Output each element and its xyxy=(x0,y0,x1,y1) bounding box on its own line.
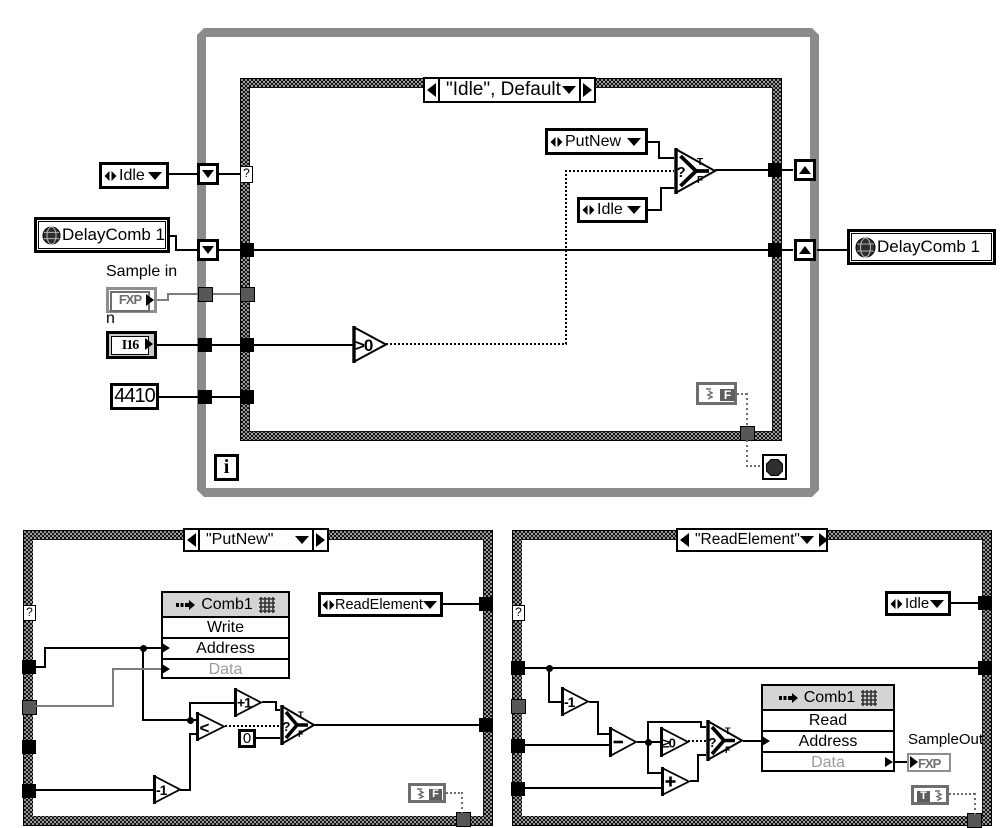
svg-text:+1: +1 xyxy=(237,695,252,711)
svg-text:-1: -1 xyxy=(564,694,576,710)
svg-text:F: F xyxy=(725,745,731,755)
svg-text:T: T xyxy=(725,726,731,736)
svg-text:≥0: ≥0 xyxy=(663,736,676,751)
svg-text:?: ? xyxy=(283,719,291,734)
svg-text:F: F xyxy=(298,729,304,739)
svg-text:-1: -1 xyxy=(156,782,168,798)
svg-text:<: < xyxy=(200,719,210,738)
svg-text:>0: >0 xyxy=(355,336,373,355)
svg-text:?: ? xyxy=(677,164,686,181)
svg-text:F: F xyxy=(697,175,703,186)
svg-text:?: ? xyxy=(709,735,717,750)
svg-text:T: T xyxy=(697,157,703,168)
svg-text:T: T xyxy=(298,710,304,720)
